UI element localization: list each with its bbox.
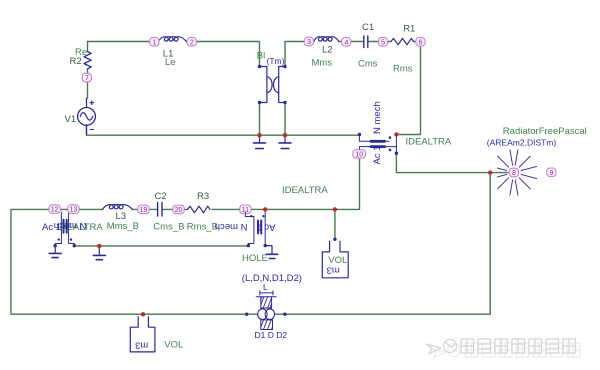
- svg-text:L: L: [263, 282, 268, 292]
- node 7: [82, 73, 91, 82]
- wire L1 to Bl left corner and down: [186, 42, 259, 67]
- svg-text:12: 12: [51, 207, 59, 214]
- node 1: [150, 38, 159, 47]
- wire R1 to node 6 and drop to transformer: [397, 42, 421, 135]
- svg-text:Cms_B: Cms_B: [153, 222, 184, 233]
- svg-text:C1: C1: [362, 22, 374, 33]
- node 3: [304, 37, 313, 46]
- junction: U2 secondary wire to ground: [97, 244, 101, 248]
- transformer U3 IDEALTRA bottom-right (HOLE): [245, 213, 254, 246]
- node 6: [416, 38, 425, 47]
- svg-text:C2: C2: [155, 191, 167, 202]
- svg-text:Ac 1: Ac 1: [256, 222, 275, 233]
- ground below U2: [54, 246, 56, 253]
- junction dot VOL2: [333, 207, 337, 211]
- svg-text:IDEALTRA: IDEALTRA: [406, 136, 452, 147]
- svg-text:5: 5: [381, 39, 385, 46]
- transformer Bl (Tm) right winding: [279, 67, 285, 103]
- svg-text:L1: L1: [163, 49, 174, 60]
- node 11: [240, 205, 251, 214]
- svg-text:Bl: Bl: [257, 51, 265, 62]
- junction dot at radiator: [488, 170, 492, 174]
- svg-text:(L,D,N,D1,D2): (L,D,N,D1,D2): [242, 273, 302, 284]
- svg-text:9: 9: [549, 170, 553, 177]
- svg-text:m3: m3: [327, 264, 340, 275]
- component VOL left: [141, 312, 145, 316]
- ground at Bl right: [284, 135, 286, 142]
- capacitor C2: [158, 203, 162, 217]
- wire bottom rail of top loop: [87, 134, 360, 136]
- watermark: [426, 339, 580, 358]
- svg-text:20: 20: [175, 207, 183, 214]
- svg-text:N mech: N mech: [215, 221, 248, 232]
- wire R2 top stub: [87, 42, 89, 52]
- resistor R2: [84, 52, 91, 69]
- svg-text:3: 3: [307, 39, 311, 46]
- wire Bl right top corner to node 3: [285, 42, 314, 67]
- svg-text:Ac 1: Ac 1: [372, 145, 383, 164]
- component VOL right: [333, 238, 336, 241]
- source V1: [86, 98, 88, 134]
- svg-text:V1: V1: [65, 114, 77, 125]
- wire node 10 drop to bottom row rail: [212, 157, 360, 209]
- wire top rail left: R2 top to L1: [88, 41, 159, 43]
- wire node 12 to 13: [50, 208, 78, 210]
- svg-text:2: 2: [190, 39, 194, 46]
- ground below U3: [265, 246, 272, 254]
- wire L2 to C1: [339, 41, 363, 43]
- svg-text:N mech: N mech: [372, 101, 383, 134]
- ground at Bl left: [259, 135, 261, 142]
- pin label Ac 1 (transformer U1, rotated): [372, 145, 383, 164]
- node 2: [187, 38, 196, 47]
- node 10: [353, 150, 366, 159]
- wire Bl right bottom: [284, 103, 286, 136]
- pin label N mech (transformer U1, rotated): [372, 101, 383, 134]
- wire C2 left to L3: [132, 208, 157, 210]
- wire transformer U2 secondary to U3: [74, 245, 248, 247]
- unit label m3 (left VOL, rotated 180): [135, 340, 148, 351]
- pin label N mech (transformer U3, rotated 180): [215, 221, 248, 232]
- node 4: [342, 38, 351, 47]
- svg-text:Rms_B: Rms_B: [187, 222, 218, 233]
- resistor R3: [188, 206, 211, 213]
- svg-text:D1 D D2: D1 D D2: [255, 330, 288, 340]
- node 13: [68, 205, 79, 214]
- node 19: [138, 205, 149, 214]
- node 8: [509, 168, 518, 177]
- wire C1 to R1: [369, 41, 391, 43]
- svg-text:(AREAm2,DISTm): (AREAm2,DISTm): [487, 137, 557, 147]
- junction: rail to transformer U3 right lead: [263, 207, 267, 211]
- svg-text:19: 19: [140, 207, 148, 214]
- wire VOL2 drop: [334, 209, 336, 238]
- wire node 12 left and big left loop down: [11, 209, 258, 314]
- svg-text:Cms: Cms: [358, 58, 378, 69]
- inductor L2: [314, 37, 339, 42]
- svg-text:(Tm): (Tm): [267, 56, 285, 66]
- svg-text:VOL: VOL: [164, 340, 183, 351]
- wire bottom rail right of port: [275, 313, 491, 315]
- svg-text:RadiatorFreePascal: RadiatorFreePascal: [503, 126, 587, 137]
- junction: Bl left leg to ground rail: [257, 133, 261, 137]
- svg-text:Mms: Mms: [312, 57, 333, 68]
- svg-text:L2: L2: [322, 45, 333, 56]
- junction: node 6 drop at transformer U1: [394, 132, 398, 136]
- svg-text:IDEALTRA: IDEALTRA: [282, 185, 328, 196]
- svg-text:R2: R2: [70, 56, 82, 67]
- node 9: [547, 168, 556, 177]
- wire bottom row rail R3 left to C2: [163, 208, 188, 210]
- pin label Ac 1 (transformer U3, rotated 180): [256, 222, 275, 233]
- svg-text:4: 4: [344, 39, 348, 46]
- svg-text:L3: L3: [116, 211, 127, 222]
- radiator rays: [498, 150, 537, 195]
- junction: Bl right leg to ground rail: [283, 133, 287, 137]
- transformer U2 IDEALTRA bottom-left: [55, 212, 61, 245]
- wire L3 to node 13: [74, 208, 103, 210]
- svg-text:HOLE: HOLE: [242, 253, 268, 264]
- unit label m3 (right VOL, rotated 180): [327, 264, 340, 275]
- svg-text:R3: R3: [197, 191, 209, 202]
- svg-text:R1: R1: [403, 23, 415, 34]
- ground at wire junction: [98, 246, 100, 255]
- transformer U1 IDEALTRA (top right): [359, 135, 389, 142]
- svg-text:N mech: N mech: [54, 220, 87, 231]
- wire V1 bottom to rail: [86, 125, 88, 135]
- wire R2 bottom to node 7 to V1: [87, 69, 89, 98]
- inductor L1: [158, 37, 186, 42]
- wire radiator junction down to bottom rail: [489, 173, 491, 315]
- wire Bl left bottom: [259, 103, 261, 136]
- capacitor C1: [364, 36, 368, 48]
- node 5: [378, 38, 387, 47]
- svg-text:8: 8: [512, 170, 516, 177]
- pin label N mech (transformer U2, rotated 180): [54, 220, 87, 231]
- node 20: [173, 205, 184, 214]
- svg-text:1: 1: [152, 39, 156, 46]
- svg-text:7: 7: [85, 75, 89, 82]
- transformer Bl (Tm) left winding: [260, 67, 267, 103]
- wire transformer U1 secondary to radiator: [396, 153, 508, 172]
- resistor R1: [391, 38, 414, 44]
- inductor L3: [103, 204, 133, 209]
- node 12: [49, 205, 60, 214]
- svg-text:Mms_B: Mms_B: [107, 221, 139, 232]
- svg-text:m3: m3: [135, 340, 148, 351]
- svg-text:10: 10: [355, 152, 363, 159]
- svg-text:Rms: Rms: [393, 63, 413, 74]
- svg-text:6: 6: [419, 39, 423, 46]
- svg-text:13: 13: [70, 207, 78, 214]
- port element (L,D,N,D1,D2): [245, 313, 248, 316]
